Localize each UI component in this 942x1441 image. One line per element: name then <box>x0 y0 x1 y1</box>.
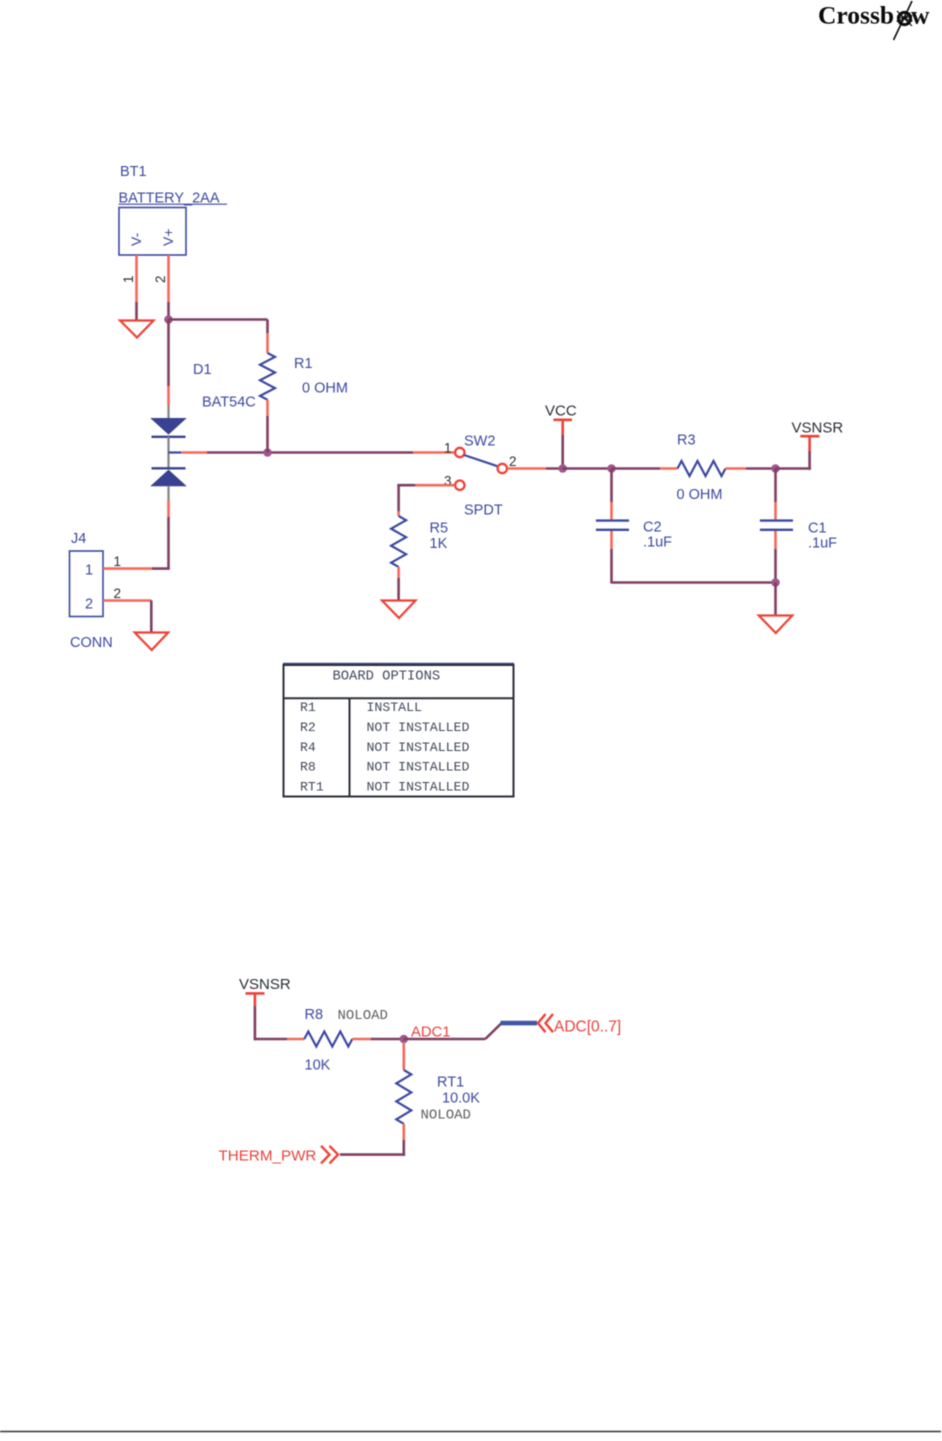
R3 right red stub <box>726 467 747 470</box>
wire diagonal rise to bus <box>485 1023 501 1039</box>
wire node F down to ground <box>774 583 777 616</box>
diode D1 bottom cathode bar <box>152 467 186 469</box>
VSNSR power symbol red stub <box>808 436 811 451</box>
VCC power symbol bar <box>553 418 572 421</box>
svg-text:10.0K: 10.0K <box>442 1091 480 1107</box>
svg-text:NOT INSTALLED: NOT INSTALLED <box>367 720 470 735</box>
svg-text:R3: R3 <box>677 433 696 449</box>
wire node D to R3 left stub <box>612 467 661 470</box>
VCC power symbol red stub <box>561 420 564 435</box>
svg-text:R1: R1 <box>300 700 316 715</box>
R1 top red stub <box>266 333 269 353</box>
SW2 pin 1 contact circle <box>455 448 464 457</box>
svg-text:BOARD OPTIONS: BOARD OPTIONS <box>333 670 441 685</box>
wire pin1 to ground <box>135 302 138 320</box>
wire R8 right to node G <box>371 1038 404 1041</box>
wire node G right toward bus <box>404 1038 486 1041</box>
svg-text:2: 2 <box>114 586 122 601</box>
wire VSNSR down to corner <box>808 451 811 470</box>
svg-text:C2: C2 <box>643 520 662 536</box>
wire red segment approaching SW2 pin 1 <box>413 451 455 454</box>
wire C2 bottom down <box>610 549 613 584</box>
svg-text:2: 2 <box>509 454 517 469</box>
svg-text:10K: 10K <box>305 1058 331 1074</box>
wire J4 pin1 corner to D1 branch <box>152 567 170 570</box>
BOARD OPTIONS table header separator <box>284 697 514 699</box>
wire node C to node D <box>563 467 612 470</box>
resistor R5 zigzag <box>391 516 406 567</box>
wire node A to R1 top (horizontal) <box>169 318 268 321</box>
battery BT1 body box <box>119 208 186 256</box>
wire SW2 pin3 to R5 corner <box>397 484 415 487</box>
svg-text:ADC[0..7]: ADC[0..7] <box>554 1019 621 1036</box>
svg-text:1: 1 <box>114 554 122 569</box>
svg-text:NOLOAD: NOLOAD <box>421 1108 471 1124</box>
resistor R1 zigzag <box>260 353 275 400</box>
svg-text:NOT INSTALLED: NOT INSTALLED <box>367 760 470 775</box>
svg-text:VSNSR: VSNSR <box>239 976 291 993</box>
C2 top red stub <box>610 502 613 519</box>
node G junction dot (ADC1) <box>400 1035 409 1044</box>
R3 left red stub <box>660 467 678 470</box>
R1 bottom wire to node B <box>266 416 269 453</box>
wire R5 corner down <box>397 485 400 511</box>
svg-text:1K: 1K <box>430 536 448 552</box>
R1 bottom red stub <box>266 400 269 416</box>
D1 lead gray segment bottom <box>167 486 169 500</box>
bus entry chevron << (red) <box>538 1014 546 1032</box>
svg-text:w: w <box>911 1 930 30</box>
VSNSR power symbol red stub (lower) <box>254 993 257 1006</box>
wire red segment below D1 <box>167 500 170 517</box>
ground symbol under node F <box>759 616 793 634</box>
bottom rule <box>0 1431 941 1433</box>
wire VSNSR corner to R8 left <box>255 1038 287 1041</box>
svg-text:BAT54C: BAT54C <box>202 395 256 411</box>
diode D1 top (anode triangle pointing down) <box>152 419 186 435</box>
ground symbol under R5 <box>382 601 416 619</box>
battery BT1 pin 1 stub <box>135 255 138 302</box>
svg-text:1: 1 <box>121 275 136 283</box>
node E junction dot (C1 top) <box>771 464 780 473</box>
R5 bottom red stub <box>397 567 400 578</box>
node F junction dot <box>771 578 780 587</box>
SW2 blade (blue) <box>464 455 498 466</box>
svg-text:BT1: BT1 <box>120 164 147 180</box>
capacitor C1 plates <box>760 519 793 521</box>
svg-text:CONN: CONN <box>70 635 113 651</box>
svg-text:SW2: SW2 <box>464 434 495 450</box>
wire D1 bottom to J4 pin1 corner <box>167 517 170 569</box>
wire SW2 pin2 to VCC node <box>546 467 563 470</box>
SW2 pin 2 contact circle <box>498 464 507 473</box>
bus segment (thick blue) <box>501 1021 538 1026</box>
svg-text:Crossb: Crossb <box>818 1 894 30</box>
ground symbol under J4 pin 2 <box>135 633 169 651</box>
wire SW2 pin2 red stub <box>508 467 547 470</box>
wire node E to VSNSR corner <box>776 467 811 470</box>
node B junction dot (R1 bottom / D1 center) <box>263 448 272 457</box>
svg-text:R8: R8 <box>305 1007 324 1023</box>
capacitor C2 top wire from node D <box>610 469 613 503</box>
svg-text:VSNSR: VSNSR <box>792 420 844 437</box>
C1 bottom red stub <box>774 531 777 549</box>
wire J4 pin2 down to ground <box>150 601 153 633</box>
wire SW2 pin3 red stub <box>415 484 454 487</box>
capacitor C2 plates <box>596 519 629 521</box>
svg-text:1: 1 <box>444 441 452 456</box>
svg-text:SPDT: SPDT <box>464 503 503 519</box>
svg-text:R8: R8 <box>300 760 316 775</box>
BOARD OPTIONS table outer border <box>284 665 514 797</box>
svg-text:RT1: RT1 <box>437 1075 464 1091</box>
svg-text:INSTALL: INSTALL <box>367 700 422 715</box>
svg-text:1: 1 <box>85 563 93 579</box>
ground symbol under BT1 pin 1 <box>120 321 154 338</box>
svg-text:V-: V- <box>128 232 144 246</box>
svg-text:R1: R1 <box>294 356 313 372</box>
svg-text:D1: D1 <box>193 362 212 378</box>
battery BT1 pin 2 stub <box>167 255 170 302</box>
connector J4 body box <box>70 551 104 617</box>
wire RT1 bottom to THERM_PWR corner <box>402 1140 405 1156</box>
R5 top red stub <box>397 511 400 516</box>
node D junction dot (C2 top) <box>607 464 616 473</box>
VSNSR power symbol bar <box>800 435 819 438</box>
wire pin2 down to node A <box>167 302 170 320</box>
svg-text:VCC: VCC <box>545 403 577 420</box>
resistor RT1 zigzag <box>396 1070 411 1124</box>
svg-text:R2: R2 <box>300 720 316 735</box>
svg-text:0 OHM: 0 OHM <box>302 381 348 397</box>
wire VSNSR down to R8 corner <box>254 1006 257 1040</box>
capacitor C1 top wire from node E <box>774 469 777 503</box>
wire red segment D1 center to right <box>181 451 207 454</box>
svg-text:0 OHM: 0 OHM <box>677 487 723 503</box>
RT1 bottom red stub <box>402 1124 405 1140</box>
R8 right red stub <box>352 1038 370 1041</box>
wire C2 bottom to node F (horizontal) <box>612 581 776 584</box>
battery BT1 label underline <box>119 203 228 205</box>
resistor R8 zigzag <box>304 1032 352 1047</box>
BOARD OPTIONS table column divider <box>349 698 351 796</box>
wire C1 bottom to node F <box>774 549 777 583</box>
svg-text:.1uF: .1uF <box>643 535 672 551</box>
SW2 pin 3 contact circle <box>455 481 464 490</box>
BOARD OPTIONS table blue top edge <box>283 662 514 664</box>
svg-text:.1uF: .1uF <box>808 536 837 552</box>
svg-text:J4: J4 <box>71 531 86 547</box>
svg-text:2: 2 <box>85 597 93 613</box>
svg-text:THERM_PWR: THERM_PWR <box>219 1148 317 1165</box>
C2 bottom red stub <box>610 531 613 549</box>
J4 pin 2 stub red <box>103 599 152 602</box>
svg-text:2: 2 <box>153 275 168 283</box>
svg-text:R5: R5 <box>430 521 449 537</box>
svg-text:NOLOAD: NOLOAD <box>338 1008 388 1024</box>
resistor R3 zigzag <box>678 461 726 476</box>
node A junction dot <box>164 315 173 324</box>
wire node A down toward D1 <box>167 320 170 387</box>
D1 lead gray segment top <box>167 406 169 419</box>
RT1 top red stub from node G <box>402 1043 405 1070</box>
wire corner to R1 <box>266 320 269 334</box>
Crossbow logo <box>818 1 930 41</box>
VSNSR power symbol bar (lower) <box>246 992 265 995</box>
wire VCC down to node C <box>561 435 564 469</box>
svg-text:RT1: RT1 <box>300 780 324 795</box>
D1 center lead gray <box>167 437 169 469</box>
diode D1 top cathode bar <box>152 436 186 438</box>
wire D1 center to SW2 pin1 (purple) <box>207 451 413 454</box>
wire R5 bottom to ground <box>397 578 400 600</box>
diode D1 bottom (triangle pointing up) <box>152 470 186 486</box>
svg-text:C1: C1 <box>808 521 827 537</box>
THERM_PWR port chevron >> (red) <box>321 1146 330 1164</box>
R8 left red stub <box>287 1038 304 1041</box>
D1 center pin blue stub <box>169 451 182 453</box>
wire red segment above D1 <box>167 386 170 406</box>
svg-text:NOT INSTALLED: NOT INSTALLED <box>367 780 470 795</box>
svg-text:NOT INSTALLED: NOT INSTALLED <box>367 740 470 755</box>
J4 pin 1 stub red <box>103 567 152 570</box>
wire THERM_PWR horizontal <box>340 1153 405 1156</box>
node C junction dot (VCC) <box>558 464 567 473</box>
wire R3 right to node E <box>746 467 776 470</box>
svg-text:V+: V+ <box>160 228 176 246</box>
C1 top red stub <box>774 502 777 519</box>
svg-text:R4: R4 <box>300 740 316 755</box>
